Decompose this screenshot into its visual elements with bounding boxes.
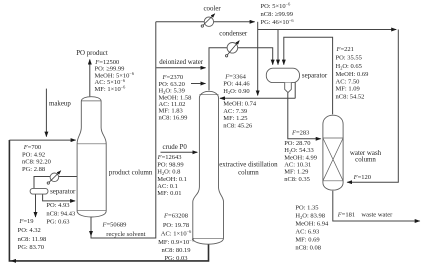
wire: right-hand downcomer and F=120 into wash column (347, 30, 398, 183)
wire: deionized water line (156, 67, 205, 69)
svg-text:waste water: waste water (361, 212, 393, 219)
svg-text:AC: 10.31: AC: 10.31 (284, 162, 311, 169)
svg-text:nC8: 80.19: nC8: 80.19 (162, 247, 191, 254)
svg-text:PO: 28.70: PO: 28.70 (284, 140, 310, 147)
svg-text:F=181: F=181 (337, 212, 355, 219)
svg-text:AC: 0.1: AC: 0.1 (157, 183, 178, 190)
wire: separator right outlet drop (294, 82, 296, 98)
svg-text:recycle solvent: recycle solvent (106, 231, 145, 238)
wire: arrow down on product bottoms drop (90, 228, 92, 236)
wire: PO product stream (89, 60, 91, 97)
wire: small separator return to product column (43, 194, 76, 201)
svg-text:F=283: F=283 (291, 129, 309, 136)
wire: product column side draw to small cooler (34, 177, 77, 189)
product column (77, 97, 106, 217)
wire: crude P0 feed into extractive column (161, 151, 198, 153)
svg-text:PO: 44.46: PO: 44.46 (223, 81, 250, 88)
wire: F=2370 stream arrow (191, 83, 206, 85)
svg-text:cooler: cooler (204, 5, 222, 12)
wire: recycle loop F=63208 extractive column bottoms around bottom-left (9, 140, 208, 261)
svg-text:nC8: 0.08: nC8: 0.08 (295, 245, 321, 252)
condenser utility arrow (228, 41, 240, 55)
svg-text:PG: 0.03: PG: 0.03 (164, 255, 187, 262)
svg-text:MeOH: 4.99: MeOH: 4.99 (284, 154, 317, 161)
svg-text:H2O: 83.98: H2O: 83.98 (295, 212, 325, 219)
cooler (top) (204, 17, 213, 26)
wire: small separator purge F=19 (35, 194, 37, 217)
svg-text:nC8: 92.20: nC8: 92.20 (22, 159, 51, 166)
wire: separator boot drop (287, 93, 289, 99)
wire: cooler line along the top (156, 21, 255, 23)
wire: waste water line (333, 191, 420, 221)
svg-text:PG: 0.63: PG: 0.63 (46, 219, 69, 226)
wire: nC8 product line to top right corner (258, 29, 397, 31)
cooler utility arrow (203, 14, 215, 26)
svg-text:MF: 1.29: MF: 1.29 (284, 169, 308, 176)
svg-text:column: column (355, 157, 376, 164)
svg-text:AC: 7.50: AC: 7.50 (336, 78, 360, 85)
wire: product column bottoms F=50689 recycle solvent riser (91, 22, 156, 238)
svg-text:PO: 4.32: PO: 4.32 (18, 227, 41, 234)
svg-text:column: column (238, 169, 259, 176)
svg-text:H2O: 0.90: H2O: 0.90 (223, 88, 249, 95)
svg-text:MF: 1.09: MF: 1.09 (336, 86, 360, 93)
svg-text:MeOH: 0.74: MeOH: 0.74 (223, 101, 257, 108)
water wash column (323, 115, 343, 190)
svg-text:PO: 5×10−6: PO: 5×10−6 (261, 2, 292, 10)
svg-text:separator: separator (50, 188, 76, 195)
condenser (227, 43, 238, 54)
svg-text:nC8: 94.43: nC8: 94.43 (46, 210, 75, 217)
svg-text:crude P0: crude P0 (163, 144, 188, 151)
svg-text:separator: separator (302, 73, 328, 80)
svg-text:AC: 6.93: AC: 6.93 (295, 228, 319, 235)
wire: vertical drop joining reflux line (257, 22, 259, 96)
svg-text:PO: 19.78: PO: 19.78 (163, 222, 189, 229)
wire: branch down into separator (277, 30, 279, 65)
wire: F=283 stream down and into wash column (288, 98, 321, 139)
svg-text:deionized water: deionized water (159, 59, 204, 66)
wire: separator bottoms reflux into extractive column top (220, 97, 295, 99)
svg-text:nC8: 45.26: nC8: 45.26 (223, 122, 253, 129)
svg-text:MF: 0.69: MF: 0.69 (295, 236, 319, 243)
svg-text:F=3364: F=3364 (224, 73, 246, 80)
small cooler (left) (50, 173, 59, 182)
svg-text:MF: 1.25: MF: 1.25 (223, 115, 247, 122)
svg-text:F=120: F=120 (353, 174, 371, 181)
wire: wash column overhead to separator (284, 37, 333, 114)
svg-text:F=700: F=700 (23, 144, 41, 151)
svg-text:nC8: 0.35: nC8: 0.35 (284, 176, 310, 183)
svg-text:MF: 1×10−6: MF: 1×10−6 (95, 85, 127, 93)
svg-text:nC8: 54.52: nC8: 54.52 (336, 93, 365, 100)
svg-text:PO: 35.55: PO: 35.55 (336, 55, 362, 62)
svg-text:makeup: makeup (49, 101, 71, 108)
separator (small drum at left) (30, 188, 48, 194)
svg-text:F=63208: F=63208 (163, 212, 188, 219)
svg-text:AC: 1×10−6: AC: 1×10−6 (161, 229, 192, 237)
svg-text:PO: 4.93: PO: 4.93 (46, 202, 69, 209)
svg-text:condenser: condenser (219, 30, 248, 37)
wire: feed line into product column (9, 139, 75, 141)
svg-text:F=12643: F=12643 (157, 154, 182, 161)
svg-text:MF: 0.01: MF: 0.01 (157, 190, 181, 197)
svg-text:PO product: PO product (76, 50, 108, 57)
separator boot (285, 83, 292, 93)
separator (top right drum) (266, 68, 299, 82)
svg-text:MeOH: 6.94: MeOH: 6.94 (295, 220, 329, 227)
svg-text:PO: 1.35: PO: 1.35 (295, 204, 318, 211)
svg-text:PG: 2.88: PG: 2.88 (22, 166, 45, 173)
svg-text:H2O: 0.65: H2O: 0.65 (336, 63, 362, 70)
wire: extractive column overhead through condenser into separator (209, 48, 273, 91)
svg-text:extractive distillation: extractive distillation (219, 161, 278, 168)
small cooler utility arrow (49, 171, 61, 183)
svg-text:F=221: F=221 (336, 46, 354, 53)
svg-text:F=19: F=19 (18, 218, 33, 225)
svg-text:MeOH: 0.69: MeOH: 0.69 (336, 71, 369, 78)
svg-text:AC: 7.39: AC: 7.39 (223, 108, 247, 115)
svg-text:nC8: 11.98: nC8: 11.98 (18, 236, 47, 243)
svg-text:PG: 46×10−6: PG: 46×10−6 (261, 18, 295, 26)
svg-text:F=50689: F=50689 (102, 222, 127, 229)
svg-text:product column: product column (109, 170, 153, 177)
svg-text:nC8: 16.99: nC8: 16.99 (159, 114, 188, 121)
svg-text:PO: 4.92: PO: 4.92 (22, 151, 45, 158)
svg-text:MF: 0.9×10−6: MF: 0.9×10−6 (158, 238, 195, 246)
extractive distillation column (193, 91, 224, 244)
wire: junction arrowhead on bottom loop pointing left (11, 260, 18, 262)
svg-text:PG: 83.70: PG: 83.70 (18, 244, 44, 251)
svg-text:PO: 98.99: PO: 98.99 (157, 161, 183, 168)
svg-text:MeOH: 0.1: MeOH: 0.1 (157, 176, 187, 183)
wire: makeup stream (45, 89, 47, 137)
